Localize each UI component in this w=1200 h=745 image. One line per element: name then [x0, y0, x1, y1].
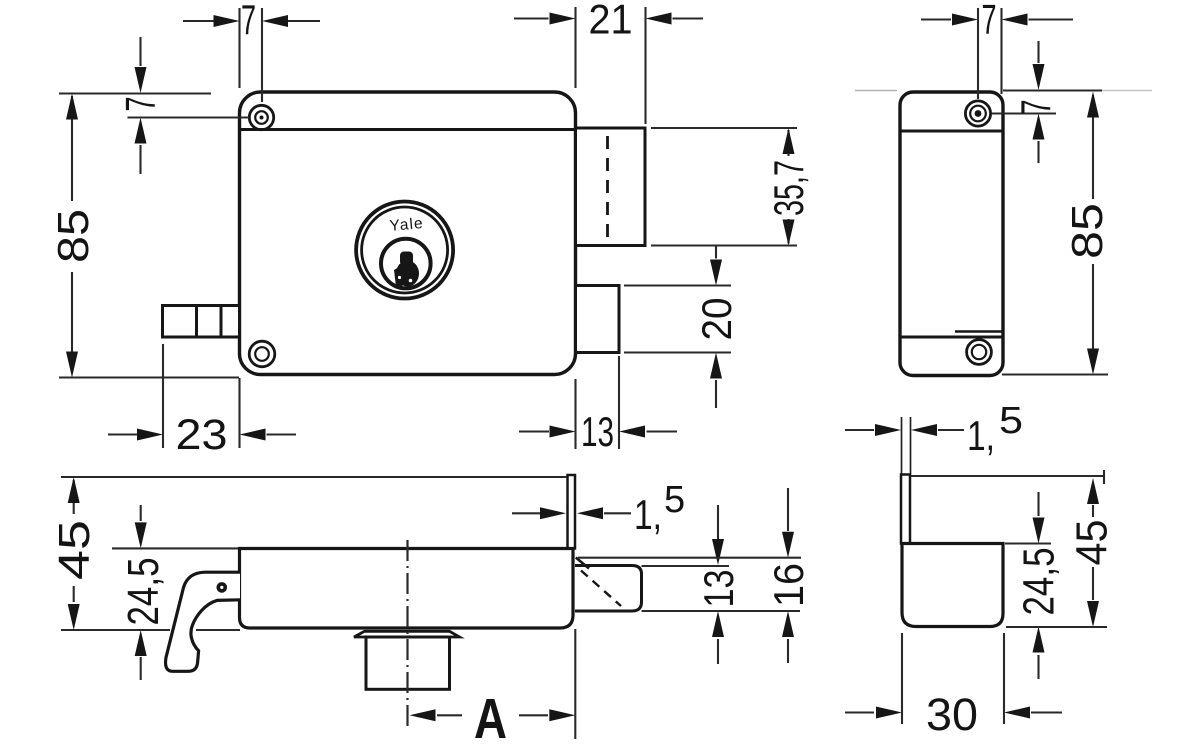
arrowhead right-pointing at 239.5,21 — [214, 15, 240, 27]
arrowhead up at 1093,91.5 — [1087, 92, 1099, 118]
arrowhead left-pointing at 409.5,715.3 — [410, 709, 436, 721]
extension line top — [59, 92, 211, 94]
left mounting tab — [163, 306, 240, 338]
DIMENSION 7 vertical screw offset — [128, 37, 250, 174]
side view bottom partial line — [955, 330, 1002, 333]
arrowhead down at 140.5,93 — [135, 67, 147, 93]
cylinder housing block bottom view — [366, 637, 450, 689]
arrowhead up at 788.5,128 — [783, 128, 795, 154]
DIMENSION 1,5 right — [845, 429, 964, 431]
arrowhead down at 72,377.5 — [66, 352, 78, 378]
side view bottom plate line — [901, 336, 1002, 339]
DIMENSION 1,5 bottom-left — [512, 512, 631, 514]
latch bevel solid corner line — [576, 558, 589, 569]
key highlight dots — [398, 276, 401, 279]
latch bottom extension — [642, 610, 801, 612]
svg-text:A: A — [474, 687, 507, 745]
svg-text:30: 30 — [926, 689, 978, 740]
svg-text:85: 85 — [49, 209, 98, 263]
screw top-left — [249, 105, 273, 129]
arrowhead right-pointing at 901,430 — [875, 424, 901, 436]
arrowhead left-pointing at 1004,712.5 — [1004, 707, 1030, 719]
latch bolt dashed centerline — [606, 136, 609, 238]
arrowhead up at 72,93.5 — [66, 94, 78, 120]
DIMENSION 30 — [845, 633, 1062, 724]
svg-text:Yale: Yale — [389, 215, 423, 235]
handle lever — [166, 572, 240, 671]
faint scan line right — [1102, 90, 1152, 92]
keyway silhouette — [394, 252, 419, 288]
extension line body left edge up — [238, 8, 240, 88]
svg-text:24,5: 24,5 — [1015, 548, 1064, 616]
svg-text:5: 5 — [664, 479, 685, 521]
arrowhead left-pointing at 911,430 — [911, 424, 937, 436]
arrowhead left-pointing at 239.5,434.5 — [240, 429, 266, 441]
DIMENSION A — [437, 629, 575, 739]
svg-text:7: 7 — [241, 0, 256, 43]
dim shaft right — [288, 20, 320, 22]
arrowhead up at 1093,478 — [1087, 478, 1099, 504]
svg-text:16: 16 — [765, 563, 812, 607]
svg-text:13: 13 — [695, 570, 742, 608]
arrowhead down at 788,555.3 — [782, 532, 794, 558]
latch bolt top right — [576, 128, 646, 246]
arrowhead down at 1038.5,543.5 — [1033, 518, 1045, 544]
arrowhead left-pointing at 262,21 — [262, 15, 288, 27]
side view top plate line — [901, 130, 1002, 133]
extension line screw center up — [261, 8, 263, 102]
latch bolt bottom view — [575, 566, 642, 612]
body top extension to right — [1003, 89, 1102, 91]
DIMENSION 24,5 right — [1005, 492, 1051, 679]
latch top extension — [642, 565, 730, 567]
svg-text:20: 20 — [693, 298, 740, 341]
lock body front view — [240, 92, 576, 375]
cylinder plug — [381, 239, 431, 289]
handle pivot dot — [217, 582, 228, 593]
arrowhead down at 1093,374.5 — [1087, 349, 1099, 375]
arrowhead down at 1038.5,90 — [1033, 64, 1045, 90]
down arrow shaft — [1037, 41, 1039, 63]
lock body side view — [900, 92, 1003, 376]
svg-text:35,7: 35,7 — [765, 160, 812, 216]
arrowhead up at 140.5,117.5 — [135, 118, 147, 144]
arrowhead right-pointing at 566,513.3 — [540, 507, 566, 519]
dim line lower segment — [71, 272, 73, 371]
arrowhead up at 1038.5,113.5 — [1033, 114, 1045, 140]
arrowhead left-pointing at 619,431.5 — [619, 426, 645, 438]
arrowhead right-pointing at 575.5,18.5 — [550, 13, 576, 25]
screw level extension — [992, 112, 1056, 114]
thin plate extension lines up — [902, 417, 911, 474]
arrowhead up at 73.7,477 — [68, 477, 80, 503]
svg-text:21: 21 — [589, 0, 633, 43]
DIMENSION 16 bottom view — [578, 488, 801, 663]
lower bolt right — [576, 286, 620, 353]
arrowhead up at 1038.5,626.5 — [1033, 627, 1045, 653]
DIMENSION 20 — [624, 246, 731, 408]
lock body bottom view — [240, 549, 574, 629]
svg-text:13: 13 — [581, 408, 614, 455]
arrowhead left-pointing at 645.5,18.5 — [646, 13, 672, 25]
strike plate side section — [901, 475, 910, 544]
DIMENSION 24,5 bottom-left — [112, 505, 238, 680]
screw bottom-left — [249, 341, 275, 367]
DIMENSION 23 — [108, 344, 296, 448]
arrowhead right-pointing at 575.3,715.3 — [549, 709, 575, 721]
DIMENSION 45 right — [911, 470, 1107, 627]
DIMENSION 45 bottom-left — [61, 480, 240, 630]
svg-text:1,: 1, — [967, 412, 995, 459]
arrowhead up at 718,611 — [712, 611, 724, 637]
DIMENSION 13 front — [519, 356, 677, 449]
arrowhead left-pointing at 577,513.3 — [577, 507, 603, 519]
dim shaft left — [183, 20, 214, 22]
svg-text:85: 85 — [1063, 203, 1112, 259]
DIMENSION 21 — [514, 7, 703, 124]
arrowhead down at 788.5,245.5 — [783, 220, 795, 246]
DIMENSION 35,7 — [651, 128, 797, 246]
DIMENSION 13 bottom view — [642, 505, 801, 664]
down arrow shaft — [139, 37, 141, 66]
DIMENSION 7 side vertical — [992, 41, 1102, 163]
arrowhead down at 140.7,548.4 — [135, 522, 147, 548]
arrowhead up at 140.7,630 — [135, 630, 147, 656]
up arrow shaft — [139, 145, 141, 174]
DIMENSION 7 top-left — [183, 8, 320, 102]
svg-text:5: 5 — [999, 400, 1023, 442]
arrowhead down at 716,285.5 — [710, 260, 722, 286]
arrowhead down at 73.7,630 — [68, 604, 80, 630]
arrowhead left-pointing at 1001.5,19.5 — [1002, 14, 1028, 26]
up arrow shaft — [1037, 141, 1039, 163]
DIMENSION 85 left — [59, 94, 239, 378]
cylinder housing lip bottom view — [354, 631, 460, 637]
arrowhead down at 718,565 — [712, 539, 724, 565]
screw side top — [965, 101, 990, 126]
DIMENSION 7 side top — [921, 8, 1073, 99]
cylinder outer ring — [356, 202, 453, 299]
svg-text:1,: 1, — [634, 491, 662, 538]
svg-text:23: 23 — [176, 411, 228, 459]
screw side bottom — [967, 340, 992, 365]
extension line bottom — [59, 376, 239, 378]
dim line upper segment — [71, 96, 73, 201]
extension line through screw — [128, 116, 250, 118]
svg-text:7: 7 — [1012, 100, 1059, 115]
svg-text:24,5: 24,5 — [119, 558, 168, 626]
cylinder inner ring — [362, 207, 448, 293]
svg-text:7: 7 — [117, 97, 164, 112]
DIMENSION 85 side — [1002, 95, 1108, 375]
arrowhead up at 788,611 — [782, 611, 794, 637]
arrowhead down at 1093,627 — [1087, 601, 1099, 627]
svg-text:7: 7 — [982, 0, 997, 43]
top extension line long — [61, 476, 568, 478]
latch bevel dashed line — [581, 571, 621, 607]
faceplate edge line front — [241, 128, 574, 131]
arrowhead right-pointing at 575.5,431.5 — [550, 426, 576, 438]
body section bottom right — [902, 544, 1003, 627]
center dash-dot line — [406, 540, 408, 731]
svg-text:45: 45 — [50, 520, 99, 580]
arrowhead right-pointing at 163,434.5 — [137, 429, 163, 441]
arrowhead right-pointing at 978,19.5 — [952, 14, 978, 26]
svg-text:45: 45 — [1068, 520, 1117, 566]
strike plate thin upright — [568, 475, 576, 549]
faint scan line left of side view — [855, 90, 897, 92]
arrowhead right-pointing at 902,712.5 — [876, 707, 902, 719]
arrowhead up at 716,352.5 — [710, 353, 722, 379]
